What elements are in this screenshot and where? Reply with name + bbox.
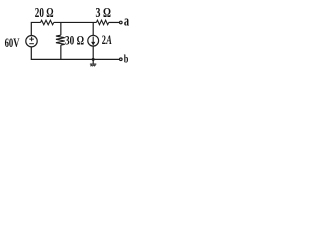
svg-text:2: 2 bbox=[102, 32, 106, 47]
resistor R3 3Ω zigzag bbox=[96, 20, 108, 25]
current source arrowhead bbox=[91, 42, 95, 46]
minus sign inside source bbox=[29, 43, 34, 45]
wire: source bottom stub, bottom-left corner, bottom wire to terminal b bbox=[31, 47, 119, 59]
junction dot: 2A branch / bottom wire bbox=[92, 58, 95, 61]
resistor R2 30Ω vertical zigzag bbox=[56, 35, 65, 45]
wire: 30Ω branch top stub (junction at top wire) bbox=[60, 22, 62, 35]
svg-text:60V: 60V bbox=[5, 35, 20, 50]
voltage source V1 circle bbox=[26, 36, 37, 47]
svg-text:3 Ω: 3 Ω bbox=[96, 5, 112, 20]
svg-text:30 Ω: 30 Ω bbox=[65, 33, 84, 48]
plus sign inside source bbox=[29, 37, 34, 42]
terminal a open dot bbox=[120, 21, 123, 24]
wire: 2A branch bottom stub bbox=[92, 46, 94, 59]
wire: 30Ω branch bottom stub bbox=[60, 45, 62, 59]
current source I1 circle bbox=[88, 35, 99, 46]
wire: top middle segment (20Ω to 3Ω) bbox=[54, 21, 97, 23]
ground symbol below 2A junction bbox=[90, 59, 96, 66]
wire: top right to terminal a bbox=[109, 21, 120, 23]
wire: 2A branch top stub bbox=[92, 22, 94, 35]
svg-text:A: A bbox=[106, 32, 112, 47]
current source arrow shaft (down) bbox=[92, 37, 94, 43]
terminal b open dot bbox=[120, 58, 123, 61]
resistor R1 20Ω zigzag bbox=[41, 20, 54, 25]
svg-text:20 Ω: 20 Ω bbox=[35, 5, 54, 20]
wire: source top stub, top-left corner, to 20Ω bbox=[31, 22, 40, 35]
svg-text:b: b bbox=[124, 51, 129, 65]
svg-text:a: a bbox=[124, 14, 130, 30]
